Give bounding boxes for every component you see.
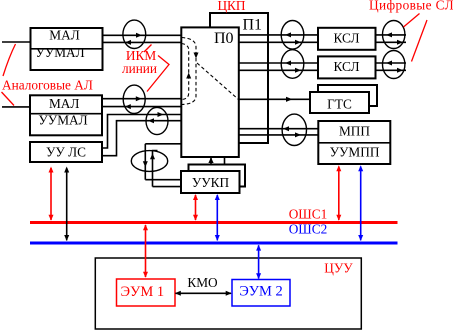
block GTS (front) [310,92,369,113]
dashed call path (outer loop, arrow down) [182,38,199,105]
svg-text:МПП: МПП [339,124,370,139]
PCM junction ellipse E2 [123,85,145,113]
dashed call path (inner loop, arrow up) [182,44,192,100]
svg-text:Цифровые СЛ: Цифровые СЛ [369,0,453,13]
svg-text:ЦУУ: ЦУУ [324,261,353,276]
PCM junction ellipse E3 [281,21,304,50]
red pointer line to E6 [412,20,428,62]
block П0 (group switch stage 0) [181,27,239,157]
block EUM 1 [117,279,176,306]
wire P0 to GTS (with arrow) [239,97,311,102]
arrow UUMPP to bus2 (blue, double) [358,165,363,241]
svg-text:П1: П1 [243,17,263,34]
red pointer line to AL line2 [2,92,15,106]
wire pair MAL1 to P0 [103,35,182,42]
svg-text:П0: П0 [214,30,234,47]
svg-text:УУМПП: УУМПП [330,145,380,160]
block EUM 2 [232,280,290,307]
red pointer line to AL line1 [3,44,16,76]
block UU LS [30,142,102,162]
red pointer line to E2 [147,56,169,92]
block MAL/UUMAL 1 [31,28,103,70]
PCM junction ellipse E8 (wide) [131,151,167,172]
block KSL 2 [318,56,376,78]
block GTS (back) [318,85,377,106]
wire PCM loop P0 to UUKP [145,144,182,187]
svg-text:ОШС2: ОШС2 [289,222,328,237]
dashed diagonal path to trunk [197,63,239,100]
PCM junction ellipse E7 [282,114,306,145]
svg-text:ЭУМ 2: ЭУМ 2 [239,284,283,300]
arrow bus1 to EUM1 (red, double) [143,224,148,277]
wire AL input line 1 [2,41,31,43]
block MPP/UUMPP [318,121,390,164]
wire pair P0 to KSL1 row [239,35,407,42]
PCM junction ellipse E2b [146,107,168,134]
svg-text:УУМАЛ: УУМАЛ [35,45,84,60]
wire AL input line 2 [2,106,30,108]
svg-text:ЭУМ 1: ЭУМ 1 [120,284,164,300]
svg-text:УУМАЛ: УУМАЛ [38,113,87,128]
svg-text:УУКП: УУКП [192,175,230,190]
arrow bus2 to EUM2 (blue, double) [256,245,261,280]
svg-text:ОШС1: ОШС1 [289,207,328,222]
arrow UUKP to bus2 (blue, double) [215,194,220,241]
red pointer line to E4 [404,14,420,28]
svg-text:ГТС: ГТС [327,97,352,112]
svg-text:КСЛ: КСЛ [333,59,359,74]
svg-text:УУ ЛС: УУ ЛС [46,145,86,160]
arrow UUKP to bus1 (red, double) [193,194,198,221]
PCM junction ellipse E1 [123,20,146,48]
arrow UU LS to bus1 (red, double) [49,167,54,221]
arrow UUMPP to bus1 (red, double) [336,165,341,221]
wire pair UU LS to P0 (with jogs) [102,115,181,156]
svg-text:МАЛ: МАЛ [49,28,79,43]
arrow UU LS to bus2 (black, double) [64,167,69,242]
svg-text:Аналоговые АЛ: Аналоговые АЛ [2,78,93,93]
block UUKP (front) [181,171,240,193]
block KSL 1 [318,28,376,50]
svg-text:КМО: КМО [187,275,218,290]
wire pair MAL2 to P0 [102,99,181,107]
arrow KMO (black, double horizontal) [175,291,232,296]
PCM junction ellipse E6 [383,51,405,79]
block UUKP (back) [189,165,246,187]
block MAL/UUMAL 2 [30,95,102,135]
svg-text:КСЛ: КСЛ [333,31,359,46]
svg-text:МАЛ: МАЛ [49,96,79,111]
block TsUU [95,258,361,329]
wire pair P0 to MPP [239,129,319,135]
svg-text:линии: линии [122,61,157,76]
red pointer line to E1 [144,45,152,53]
block П1 (group switch stage 1) [210,13,268,143]
bus OSHS2 (blue) [30,242,398,245]
PCM junction ellipse E4 [383,21,405,49]
bus OSHS1 (red) [30,221,398,224]
svg-text:ЦКП: ЦКП [217,0,245,13]
wire P0 to UUKP connector (arrowed) [208,157,213,165]
PCM junction ellipse E5 [281,50,304,79]
wire pair P0 to KSL2 row [239,63,407,70]
wire P0 to UUKP connector (plain) [224,157,226,165]
